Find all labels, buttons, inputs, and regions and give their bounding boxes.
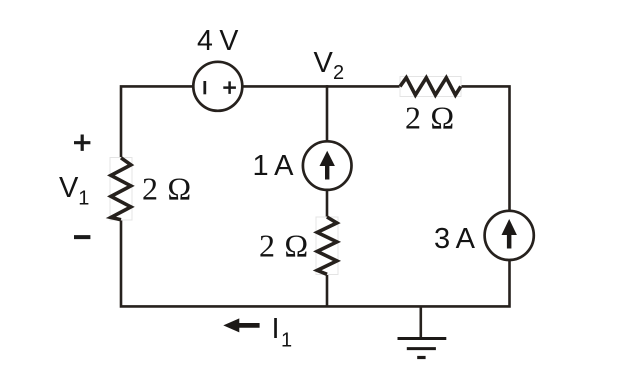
wire: middle branch between 1A source and resistor bbox=[326, 190, 329, 217]
svg-text:2 Ω: 2 Ω bbox=[142, 170, 192, 206]
wire: middle branch bottom bbox=[326, 274, 329, 306]
svg-text:V: V bbox=[314, 47, 334, 79]
resistor R-left bounding box bbox=[110, 158, 132, 221]
current source 3A arrow (up) bbox=[502, 219, 517, 249]
svg-text:2 Ω: 2 Ω bbox=[405, 100, 455, 136]
current source I=1A circle bbox=[303, 141, 352, 190]
voltage source minus terminal bar bbox=[203, 81, 206, 94]
ground stem wire bbox=[419, 306, 422, 338]
svg-text:4 V: 4 V bbox=[197, 25, 238, 57]
current I1 arrow (pointing left) bbox=[223, 318, 259, 332]
ground bar 2 bbox=[407, 347, 436, 350]
ground bar 3 bbox=[417, 356, 425, 359]
wire: left vertical lower + bottom wire + right vertical lower bbox=[121, 220, 510, 307]
svg-text:V: V bbox=[59, 172, 79, 204]
voltage source V=4V circle bbox=[193, 62, 242, 111]
svg-text:3 A: 3 A bbox=[434, 223, 476, 255]
current source 1A arrow (up) bbox=[320, 151, 335, 180]
ground bar 1 bbox=[398, 337, 447, 340]
svg-text:1 A: 1 A bbox=[253, 150, 295, 182]
svg-text:2: 2 bbox=[333, 62, 344, 84]
wire: top-left corner (left vertical upper + top-left horizontal) bbox=[121, 86, 194, 157]
resistor R-top zigzag 2 ohm (top-right) bbox=[400, 78, 461, 95]
label minus sign (V1 polarity) bbox=[74, 235, 90, 239]
svg-text:I: I bbox=[272, 313, 280, 345]
wire: middle branch top (V2 node down to 1A source) bbox=[326, 85, 329, 141]
svg-text:1: 1 bbox=[281, 330, 292, 352]
wire: top middle segment between source and V2/right resistor bbox=[242, 85, 400, 88]
current source I=3A circle bbox=[485, 211, 534, 260]
resistor R-left zigzag 2 ohm (left branch) bbox=[111, 158, 131, 220]
label plus sign (V1 polarity) bbox=[74, 135, 90, 151]
resistor R-mid bounding box bbox=[316, 217, 338, 275]
svg-text:1: 1 bbox=[78, 188, 89, 210]
wire: top-right corner (right vertical upper) bbox=[461, 86, 510, 210]
voltage source plus sign bbox=[223, 81, 236, 94]
resistor R-top bounding box bbox=[400, 77, 461, 97]
resistor R-mid zigzag 2 ohm (middle branch) bbox=[317, 217, 337, 274]
svg-text:2 Ω: 2 Ω bbox=[259, 228, 309, 264]
